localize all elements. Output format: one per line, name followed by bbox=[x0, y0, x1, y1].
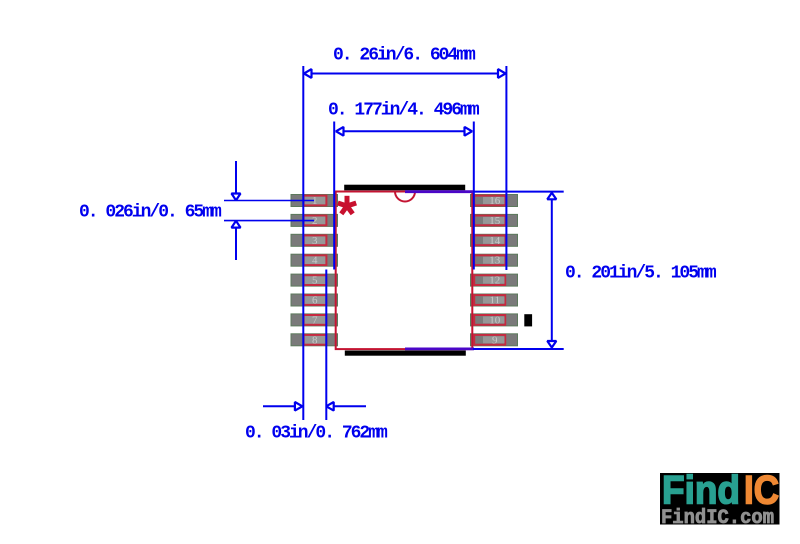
dimension text 0.26in/6.604mm bbox=[333, 46, 476, 66]
FindIC logo bbox=[660, 469, 780, 531]
pad 14 bbox=[471, 234, 518, 247]
black index square bbox=[524, 314, 532, 326]
dimension text 0.201in/5.105mm bbox=[565, 264, 717, 284]
pad 11 bbox=[471, 294, 518, 307]
extension line bottom for 0.201in dimension bbox=[405, 347, 564, 350]
pin 1 marker asterisk bbox=[338, 196, 356, 214]
IC body outline U1 bbox=[336, 192, 473, 350]
svg-text:15: 15 bbox=[489, 215, 501, 227]
pad 12 bbox=[471, 274, 518, 287]
svg-text:9: 9 bbox=[492, 334, 498, 346]
pad 7 bbox=[291, 314, 338, 327]
pad 9 bbox=[471, 334, 518, 347]
pad 16 bbox=[471, 195, 518, 208]
svg-text:0. 177in/4. 496mm: 0. 177in/4. 496mm bbox=[328, 101, 480, 121]
pad 10 bbox=[471, 314, 518, 327]
dimension line 0.026in vertical with arrows bbox=[232, 161, 241, 260]
svg-text:4: 4 bbox=[312, 255, 318, 267]
extension line top for 0.201in dimension bbox=[405, 190, 564, 193]
svg-text:0. 201in/5. 105mm: 0. 201in/5. 105mm bbox=[565, 264, 717, 284]
dimension text 0.03in/0.762mm bbox=[245, 424, 388, 444]
pad 6 bbox=[291, 294, 338, 307]
svg-text:FindIC.com: FindIC.com bbox=[661, 507, 774, 530]
pad 13 bbox=[471, 254, 518, 267]
svg-text:5: 5 bbox=[312, 275, 318, 287]
svg-text:11: 11 bbox=[490, 295, 501, 307]
pad 5 bbox=[291, 274, 338, 287]
dimension text 0.026in/0.65mm bbox=[79, 203, 222, 223]
bottom package body bar bbox=[345, 351, 466, 356]
svg-text:6: 6 bbox=[312, 295, 318, 307]
svg-text:10: 10 bbox=[489, 314, 501, 326]
pad 2 bbox=[291, 214, 338, 227]
svg-text:0. 26in/6. 604mm: 0. 26in/6. 604mm bbox=[333, 46, 476, 66]
dimension line 0.201in vertical bbox=[547, 193, 556, 348]
pad 15 bbox=[471, 214, 518, 227]
top package body bar bbox=[344, 185, 465, 191]
extension line left for 0.177in dimension bbox=[333, 122, 335, 270]
dimension line 0.177in horizontal bbox=[336, 127, 473, 136]
extension line right for 0.26in dimension bbox=[505, 66, 507, 270]
svg-text:16: 16 bbox=[489, 195, 501, 207]
svg-text:3: 3 bbox=[312, 235, 318, 247]
svg-text:14: 14 bbox=[489, 235, 501, 247]
extension line right for 0.03in dimension bbox=[325, 270, 327, 421]
leader line to pad 1 center bbox=[224, 200, 314, 202]
svg-text:0. 03in/0. 762mm: 0. 03in/0. 762mm bbox=[245, 424, 388, 444]
svg-text:Find: Find bbox=[662, 469, 740, 513]
svg-text:12: 12 bbox=[489, 275, 500, 287]
extension line right for 0.177in dimension bbox=[473, 122, 475, 270]
extension line left for 0.26in dimension bbox=[302, 66, 304, 420]
pad 8 bbox=[291, 334, 338, 347]
dimension line 0.26in horizontal bbox=[304, 69, 506, 78]
dimension text 0.177in/4.496mm bbox=[328, 101, 480, 121]
svg-text:8: 8 bbox=[312, 334, 318, 346]
leader line to pad 2 center bbox=[224, 220, 314, 222]
svg-text:0. 026in/0. 65mm: 0. 026in/0. 65mm bbox=[79, 203, 222, 223]
dimension line 0.03in right segment with arrow bbox=[326, 402, 366, 411]
pad 1 bbox=[291, 195, 338, 208]
dimension line 0.03in left segment with arrow bbox=[263, 402, 302, 411]
svg-text:7: 7 bbox=[312, 314, 318, 326]
pin 1 notch bbox=[395, 192, 415, 202]
svg-text:13: 13 bbox=[489, 255, 501, 267]
svg-text:IC: IC bbox=[744, 469, 779, 513]
pad 3 bbox=[291, 234, 338, 247]
pad 4 bbox=[291, 254, 338, 267]
